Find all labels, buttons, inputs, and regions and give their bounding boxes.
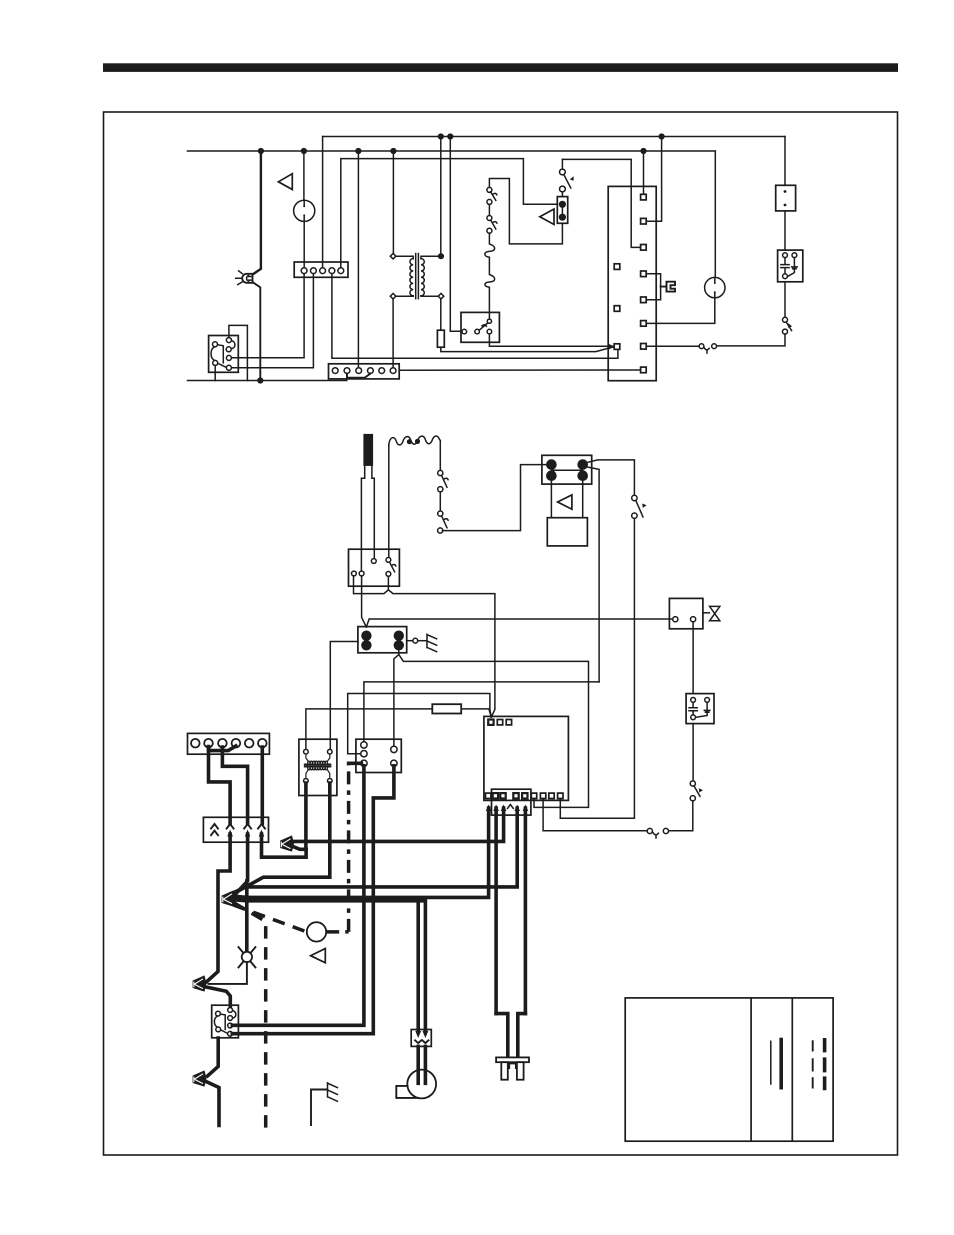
spark cable wavy: [389, 436, 441, 446]
diagram border frame: [104, 112, 898, 1155]
limit plug P2: [212, 1005, 239, 1038]
wire T2 to K2 coil: [330, 642, 358, 750]
thermostat switch S8: [632, 495, 647, 518]
wire pressure control feed: [450, 137, 462, 332]
wire GV to C2: [692, 622, 694, 694]
wire K1 coil left: [550, 481, 552, 518]
node J6: [438, 133, 444, 139]
node J8: [659, 133, 665, 139]
thermostat strip TB3: [188, 733, 270, 754]
wire pin2 riser: [646, 137, 661, 222]
pin-c arrowhead: [608, 343, 615, 350]
harness wire 4: [235, 808, 518, 892]
relay contacts K2: [358, 627, 407, 653]
power plug cap: [496, 1057, 529, 1062]
note triangle 4: [311, 949, 326, 963]
harness wire 3: [294, 808, 504, 841]
wire K1 to thermostat switch: [585, 460, 634, 496]
chassis ground G2: [311, 1083, 337, 1125]
wire S10 to control plug: [543, 799, 647, 831]
capacitor block C1: [778, 250, 803, 282]
legend box: [625, 998, 833, 1141]
indicator lamp DS1: [236, 271, 253, 285]
plug shell on U3: [492, 789, 531, 815]
wire lamp to neutral: [253, 282, 260, 380]
wire S4 to door switch: [716, 334, 785, 346]
wire vent4 to splice A junction: [262, 834, 307, 857]
wire TB3-6 to vent plug: [260, 747, 264, 824]
jumper TB2 2-4: [347, 374, 370, 378]
wire T1 to strip6: [392, 299, 394, 367]
wire splice B dashed drop: [234, 903, 266, 1130]
wire T2 bottom left drop: [304, 783, 308, 849]
limit switch S2: [487, 187, 497, 204]
U3 top pins: [488, 720, 511, 725]
wire blower motor to pin6: [646, 298, 715, 324]
wire receptacle bottom to neutral: [214, 365, 216, 380]
node J2: [301, 148, 307, 154]
wire FC to dashed: [349, 761, 362, 765]
wire drop to strip terminal 3: [322, 137, 324, 269]
title bar rule: [103, 63, 898, 72]
chassis ground G1: [407, 634, 437, 651]
wire FC to control pin1: [348, 694, 492, 754]
U1 left pins: [614, 264, 620, 350]
pilot lamp DS2: [239, 947, 256, 967]
gas valve GV: [669, 598, 719, 628]
wire T2 to fuse F2 to pin1: [306, 709, 491, 749]
aux limit switch S4: [783, 282, 793, 334]
wire splice B dashed to capacitor: [234, 905, 307, 932]
wire TB3-3 to vent plug: [222, 747, 247, 824]
power plug prongs: [501, 1062, 523, 1080]
wire control pin1 drop: [643, 151, 645, 194]
wire FC right drop to limit plug: [232, 766, 394, 1034]
wire TB2 to control pin8: [399, 369, 640, 371]
wire splice B to inducer lead2: [235, 900, 426, 1030]
wire splice A elbow: [293, 847, 306, 850]
wire capacitor dashed link: [326, 765, 348, 932]
igniter warning bar E1: [557, 192, 567, 223]
wire spark cable to box: [388, 445, 390, 557]
jumper pin4-pin5 with plug: [646, 274, 660, 300]
run capacitor CR: [307, 922, 326, 941]
wire receptacle top to neutral: [229, 325, 248, 380]
wire splice D tail: [206, 1082, 219, 1126]
power cord leads: [496, 1014, 525, 1058]
wire S6 to S7: [439, 492, 441, 511]
wire K2 to fan control FC: [394, 655, 399, 748]
legend thin solid sample: [770, 1041, 772, 1084]
wire TB1-1 to receptacle: [231, 274, 304, 358]
sensor element RT1: [485, 233, 495, 312]
splice A: [280, 835, 294, 851]
wire C2 to sail switch: [692, 724, 694, 781]
note triangle 3: [558, 495, 572, 509]
wire U2 to control pin1: [388, 590, 495, 717]
wire rollout to pin3: [562, 159, 640, 247]
node spark1: [407, 439, 412, 444]
wire pressure switch to pin-c: [489, 334, 613, 346]
wire strip3 drop: [357, 151, 359, 367]
splice D: [193, 1070, 207, 1086]
wire T1 to fuse F1: [440, 299, 442, 330]
wire transformer T1 primary left drop: [392, 151, 394, 254]
spark control box U2: [349, 549, 400, 586]
node spark2: [415, 439, 420, 444]
wire between limits: [488, 204, 490, 215]
fuse F1: [437, 330, 444, 347]
wire T1 secondary right drop: [440, 137, 442, 255]
harness wire 1: [235, 808, 489, 897]
legend thick solid sample: [779, 1040, 783, 1088]
receptacle P1: [209, 336, 239, 373]
wire blower motor branch: [714, 151, 716, 278]
relay coil box K1: [547, 518, 587, 546]
wire L2 upper line: [323, 136, 785, 138]
limit switch S3: [487, 216, 497, 234]
wire TB1-2 to receptacle: [231, 274, 313, 368]
wire lamp feed: [253, 151, 261, 274]
aux switch S7: [438, 511, 449, 533]
circulator motor M1: [294, 200, 315, 221]
wire motor M1 to strip: [303, 221, 305, 268]
inducer plug J11: [411, 1030, 431, 1047]
fan control box FC: [356, 739, 401, 772]
legend thick dashed sample: [823, 1040, 827, 1089]
wire strip5 to rollout: [341, 159, 558, 269]
harness wire 2: [494, 808, 498, 1014]
door switch S5: [699, 344, 716, 353]
U3 bottom pins: [486, 793, 564, 798]
vent damper plug J10: [203, 817, 268, 842]
U1 right pins: [641, 194, 647, 372]
note triangle 2: [540, 209, 554, 225]
node J9: [257, 377, 263, 383]
furnace control board U3: [484, 716, 569, 800]
plug symbol on jumper: [661, 282, 675, 292]
wire S8 down to control plug: [560, 518, 634, 818]
wire vent2 to splice C: [207, 834, 230, 982]
fan control box U1: [608, 186, 656, 380]
wire U2 jumper below: [354, 576, 389, 594]
wire N neutral line: [188, 374, 347, 381]
plug chevron blank: [508, 805, 514, 809]
wire gas valve line: [366, 619, 672, 627]
vent switch S10: [647, 828, 668, 838]
interlock box A1: [776, 185, 796, 211]
terminal strip TB2: [329, 364, 400, 379]
wire K2 to gas valve chain: [399, 650, 589, 807]
wire vent3 to splice B and lamp: [235, 834, 248, 952]
rollout switch S1: [560, 159, 574, 192]
blower motor M2: [705, 277, 725, 297]
wire splice B to T2: [235, 783, 330, 893]
harness wire 5: [524, 808, 528, 1014]
wire L1 hot line: [188, 150, 716, 152]
node J3: [355, 148, 361, 154]
node J7: [447, 133, 453, 139]
node J1: [258, 148, 264, 154]
wire lamp DS2 to splice C: [209, 962, 247, 984]
wire motor M1 drop: [303, 151, 305, 200]
wire splice C to limit plug: [206, 987, 230, 1008]
wire K1 to gas chain riser: [585, 467, 599, 682]
wire TB3-2 to vent plug: [209, 747, 231, 824]
wire pin7 to door switch: [646, 345, 699, 347]
wire wavy corner down: [439, 441, 441, 471]
splice B: [222, 890, 236, 906]
wire TB1-4 to pin-c: [332, 274, 618, 359]
wire gas chain to FC left: [364, 682, 599, 743]
wire S9 to S10: [668, 801, 692, 831]
splice C: [193, 975, 207, 991]
relay contacts K1: [542, 455, 592, 484]
wire limit plug to splice D: [208, 1038, 219, 1076]
transformer T1: [390, 253, 444, 299]
capacitor block C2: [686, 694, 714, 724]
wire S7 to relay K1: [442, 465, 546, 531]
wire FC left drop to limit plug: [232, 766, 364, 1026]
hot surface igniter HSI: [361, 434, 374, 571]
inducer motor B1: [396, 1046, 436, 1098]
fuse F2: [432, 704, 461, 713]
junction strip TB1: [294, 262, 348, 277]
transformer T2: [299, 739, 337, 795]
sail switch S9: [690, 781, 703, 801]
note triangle 1: [278, 174, 292, 190]
wire U2 to relay K2: [362, 576, 367, 627]
jumper TB3 2-4: [209, 746, 236, 751]
wire A1 to C1: [784, 211, 786, 250]
legend thin dashed sample: [812, 1041, 814, 1087]
plug arrows: [486, 805, 528, 812]
wire igniter bottom loop: [489, 179, 562, 244]
wire K1 coil right: [582, 481, 584, 518]
wire interlock feed: [784, 137, 786, 186]
aux switch S6: [438, 470, 448, 491]
node J4: [390, 148, 396, 154]
node J5: [640, 148, 646, 154]
wire splice B to inducer lead1: [235, 898, 419, 1030]
pressure switch box PS1: [461, 312, 499, 342]
wire fuse to pin-c diagonal: [441, 347, 614, 352]
